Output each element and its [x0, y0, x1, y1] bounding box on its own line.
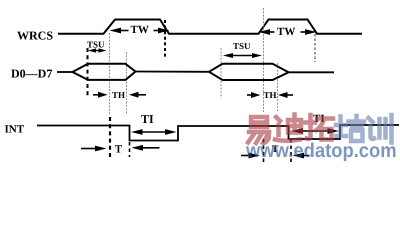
TW pulse1 right arrow	[154, 30, 161, 32]
svg-text:www.edatop.com: www.edatop.com	[245, 140, 397, 162]
svg-text:T: T	[115, 144, 123, 156]
node guide: WRCS1 rising edge (gray)	[109, 33, 111, 115]
svg-text:WRCS: WRCS	[17, 29, 53, 43]
node guide: T-right left reference (black dashed)	[263, 139, 265, 163]
watermark 培训 (blue)	[336, 115, 392, 143]
INT waveform	[37, 125, 399, 141]
WRCS waveform	[58, 20, 362, 34]
D0-D7 bus waveform: lead-in wire	[57, 71, 73, 73]
svg-text:D0—D7: D0—D7	[11, 66, 52, 80]
svg-text:INT: INT	[5, 123, 25, 135]
T1 left arrow	[81, 148, 97, 150]
node guide: WRCS2 rising edge (gray, full height)	[263, 8, 265, 112]
TSU2 double arrow	[230, 55, 255, 57]
char 易	[248, 117, 269, 143]
TH2 left arrow	[247, 94, 252, 96]
svg-text:TSU: TSU	[233, 41, 251, 51]
svg-text:TI: TI	[141, 112, 154, 126]
svg-text:TH: TH	[264, 90, 277, 100]
svg-text:TW: TW	[131, 24, 149, 36]
node guide: WRCS2 falling edge (black dashed)	[314, 34, 316, 62]
TW pulse2 right arrow	[301, 31, 308, 33]
node guide: below INT fall1 (black dashed)	[129, 142, 131, 157]
T2 right arrow	[302, 155, 309, 157]
node guide: below INT fall2 (black dashed)	[290, 139, 292, 163]
TH1 left arrow	[93, 94, 99, 96]
char 培	[336, 116, 364, 141]
node guide: data2 left edge (gray)	[220, 48, 222, 98]
TH2 right arrow	[286, 94, 293, 96]
TW pulse1 left arrow	[119, 30, 129, 32]
node guide: data1 valid start (black dashed)	[87, 48, 89, 96]
char 训	[369, 115, 392, 143]
svg-text:TSU: TSU	[87, 40, 105, 50]
lead-out wire	[289, 71, 335, 73]
bus hexagon 1	[73, 64, 136, 80]
svg-text:TW: TW	[277, 26, 295, 38]
TSU1 double arrow	[92, 50, 102, 52]
watermark 易迪拓 (red)	[248, 115, 333, 144]
bus hexagon 2	[209, 64, 289, 80]
node guide: data2 hold end (gray)	[277, 63, 279, 112]
TI2 double arrow	[299, 130, 331, 132]
TI1 double arrow	[139, 131, 169, 133]
watermark www.edatop.com (blue)	[245, 140, 397, 162]
char 迪	[275, 115, 301, 141]
node guide: WRCS1 falling edge (black dashed)	[164, 20, 166, 57]
node guide: T-left reference (black dashed bold)	[109, 117, 111, 158]
T1 right arrow	[141, 147, 160, 149]
TW pulse2 left arrow	[268, 31, 275, 33]
svg-text:TH: TH	[112, 90, 125, 100]
node guide: data1 hold end (gray)	[126, 52, 128, 114]
char 拓	[306, 115, 334, 140]
wire between hexagons	[136, 71, 210, 73]
TH1 right arrow	[137, 94, 146, 96]
T2 left arrow	[241, 155, 251, 157]
